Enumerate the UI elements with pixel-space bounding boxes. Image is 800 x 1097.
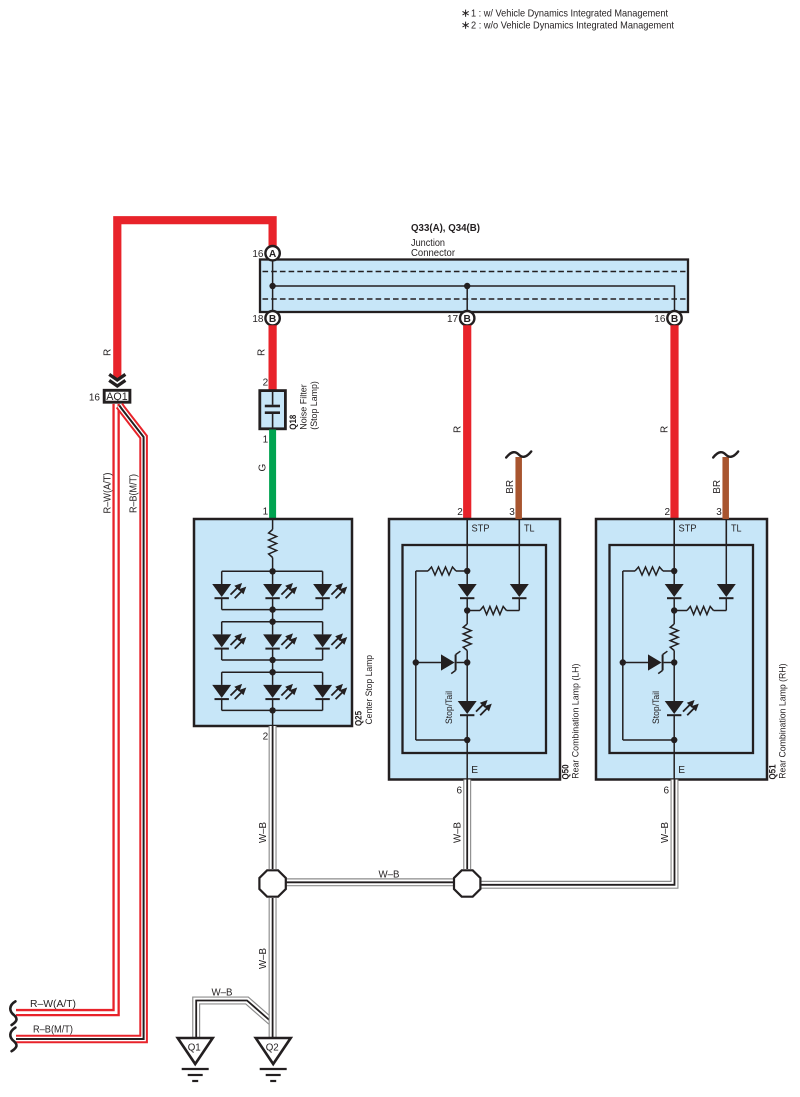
junction connector dashed bus upper xyxy=(263,271,686,273)
zener diode (Q50 clamp) xyxy=(416,662,441,664)
svg-text:W–B: W–B xyxy=(379,869,400,880)
pin 16 A (junction connector top) xyxy=(265,246,279,260)
wire G from noise filter to Q25 xyxy=(269,430,276,520)
splice junction J2 (octagon) xyxy=(454,870,480,896)
wire-break tilde (Q50 BR) xyxy=(506,452,531,458)
Q51 left rail xyxy=(622,571,624,740)
wire row 2 to row 3 xyxy=(272,660,274,672)
wire R-B(M/T) red/black xyxy=(16,406,144,1040)
resistor (Q51 tail dim) xyxy=(725,598,727,610)
resistor (Q51 bias) xyxy=(623,570,635,572)
LED D8 (Q25 row 3) xyxy=(272,672,274,685)
junction node (Q50 zener) xyxy=(464,659,470,665)
svg-text:W–B: W–B xyxy=(453,822,464,843)
wire W-B junction J1 to junction J2 xyxy=(286,878,453,886)
ground point Q2 xyxy=(256,1038,291,1064)
wire BR (tail feed to Q51) xyxy=(722,457,729,519)
capacitor C plates (Q18) xyxy=(265,405,280,408)
LED row 2 bottom bus xyxy=(222,659,323,661)
svg-text:W–B: W–B xyxy=(258,822,269,843)
svg-text:16: 16 xyxy=(252,249,264,260)
svg-text:(Stop Lamp): (Stop Lamp) xyxy=(309,381,319,430)
svg-text:AQ1: AQ1 xyxy=(106,391,127,403)
junction nodes row 1 xyxy=(269,568,275,574)
svg-text:2: 2 xyxy=(263,378,269,389)
Q51 TL pin wire xyxy=(725,519,727,545)
splice junction J1 (octagon) xyxy=(259,870,285,896)
svg-text:2: 2 xyxy=(665,507,671,518)
svg-text:W–B: W–B xyxy=(660,822,671,843)
Q50 left rail bottom return xyxy=(416,739,467,741)
diode (Q50 STP) xyxy=(466,571,468,584)
Q50 STP wire into module xyxy=(466,545,468,571)
wire W-B branch to ground Q1 xyxy=(196,1001,271,1038)
svg-text:BR: BR xyxy=(712,480,723,494)
LED D6 (Q25 row 2) xyxy=(322,622,324,635)
LED D1 (Q25 row 1) xyxy=(221,571,223,584)
junction node (Q50 left rail) xyxy=(413,659,419,665)
diode (Q51 TL) xyxy=(725,545,727,584)
svg-text:Stop/Tail: Stop/Tail xyxy=(444,691,454,724)
rear combination lamp Q50 box xyxy=(389,519,560,780)
resistor (Q50 tail dim) xyxy=(518,598,520,610)
wire row 1 to row 2 xyxy=(272,610,274,622)
Q50 TL pin wire xyxy=(518,519,520,545)
junction connector internal wire A16 to B18 xyxy=(272,260,274,311)
svg-text:16: 16 xyxy=(89,393,101,404)
svg-text:Q1: Q1 xyxy=(188,1043,201,1054)
svg-text:B: B xyxy=(464,314,471,325)
Q51 left rail bottom return xyxy=(623,739,674,741)
svg-text:B: B xyxy=(671,314,678,325)
wire R-W(A/T) red/white xyxy=(16,404,116,1013)
svg-text:Rear Combination Lamp (LH): Rear Combination Lamp (LH) xyxy=(571,664,581,779)
svg-text:6: 6 xyxy=(663,786,669,797)
connector arrow (double chevron) into AQ1 xyxy=(109,374,125,380)
LED D9 (Q25 row 3) xyxy=(322,672,324,685)
svg-text:W–B: W–B xyxy=(212,988,233,999)
junction node (Q51 mix) xyxy=(671,607,677,613)
junction connector internal bus wire to B17 and B16 xyxy=(273,286,675,311)
svg-text:2: 2 xyxy=(457,507,463,518)
svg-text:Rear Combination Lamp (RH): Rear Combination Lamp (RH) xyxy=(778,664,788,779)
wire-break squiggle (R-B end) xyxy=(10,1028,16,1052)
noise filter Q18 box xyxy=(260,391,286,429)
wire W-B from Q51 down and left to junction J2 xyxy=(481,780,675,885)
wire resistor to LED bank xyxy=(272,558,274,572)
LED D7 (Q25 row 3) xyxy=(221,672,223,685)
svg-text:Center Stop Lamp: Center Stop Lamp xyxy=(364,655,374,725)
Q51 STP pin wire xyxy=(673,519,675,545)
svg-text:18: 18 xyxy=(252,314,264,325)
svg-text:Stop/Tail: Stop/Tail xyxy=(651,691,661,724)
Q51 E pin wire xyxy=(673,740,675,780)
svg-text:W–B: W–B xyxy=(258,948,269,969)
diode (Q50 TL) xyxy=(518,545,520,584)
junction node (Q51 cathode) xyxy=(671,737,677,743)
wire R from B16 to Q51 STP xyxy=(670,325,678,519)
wire LED bank to Q25 pin 2 xyxy=(272,710,274,726)
junction node at A16 bus xyxy=(269,283,275,289)
svg-text:Noise Filter: Noise Filter xyxy=(299,384,309,430)
svg-text:BR: BR xyxy=(505,480,516,494)
svg-text:TL: TL xyxy=(524,524,535,535)
connector AQ1 box xyxy=(104,390,130,402)
svg-text:1: 1 xyxy=(263,435,269,446)
Q51 inner module box xyxy=(610,545,754,753)
note *1 w/ VDIM xyxy=(465,10,467,17)
resistor (Q50 bias) xyxy=(416,570,428,572)
LED D5 (Q25 row 2) xyxy=(272,622,274,635)
zener diode (Q51 clamp) xyxy=(623,662,648,664)
junction nodes row 3 xyxy=(269,669,275,675)
Q51 STP wire into module xyxy=(673,545,675,571)
junction node (Q50 cathode) xyxy=(464,737,470,743)
svg-text:B: B xyxy=(269,314,276,325)
svg-text:E: E xyxy=(471,765,478,776)
junction nodes row 2 xyxy=(269,619,275,625)
LED row 2 top bus xyxy=(222,621,323,623)
svg-text:STP: STP xyxy=(679,524,697,535)
wire R from B17 to Q50 STP xyxy=(463,325,471,519)
capacitor lead top (Q18) xyxy=(272,391,274,405)
svg-text:R: R xyxy=(257,349,268,356)
LED row 1 top bus xyxy=(222,570,323,572)
svg-text:Connector: Connector xyxy=(411,248,456,259)
svg-text:R: R xyxy=(103,349,114,356)
wire R feed from stop lamp switch (thick red) xyxy=(117,220,272,379)
junction connector internal drop to B17 xyxy=(466,286,468,311)
ground point Q1 xyxy=(178,1038,213,1064)
junction node (Q51 left rail) xyxy=(620,659,626,665)
junction node at B17 bus xyxy=(464,283,470,289)
center stop lamp Q25 box xyxy=(194,519,352,726)
wire-break squiggle (R-W end) xyxy=(10,1001,16,1025)
capacitor lead bottom (Q18) xyxy=(272,414,274,429)
svg-text:R–W(A/T): R–W(A/T) xyxy=(30,999,76,1010)
svg-text:Q2: Q2 xyxy=(266,1043,279,1054)
svg-text:E: E xyxy=(678,765,685,776)
wire W-B from Q50 to junction J2 xyxy=(463,780,471,870)
Q50 E pin wire xyxy=(466,740,468,780)
junction node (Q50 mix) xyxy=(464,607,470,613)
junction connector dashed bus lower xyxy=(263,298,686,300)
LED D3 (Q25 row 1) xyxy=(322,571,324,584)
svg-text:2: 2 xyxy=(263,732,269,743)
wire R from B18 to noise filter Q18 xyxy=(269,325,277,390)
LED D2 (Q25 row 1) xyxy=(272,571,274,584)
rear combination lamp Q51 box xyxy=(596,519,767,780)
svg-text:R: R xyxy=(660,426,671,433)
svg-text:A: A xyxy=(269,249,277,260)
svg-text:STP: STP xyxy=(472,524,490,535)
diode (Q51 STP) xyxy=(673,571,675,584)
Q50 left rail xyxy=(415,571,417,740)
svg-text:Junction: Junction xyxy=(411,238,445,249)
svg-text:Q33(A), Q34(B): Q33(A), Q34(B) xyxy=(411,223,480,234)
resistor (Q25 series) xyxy=(269,530,277,558)
junction node (Q51 zener) xyxy=(671,659,677,665)
svg-text:2 : w/o Vehicle Dynamics Integ: 2 : w/o Vehicle Dynamics Integrated Mana… xyxy=(471,21,674,32)
svg-text:1 : w/ Vehicle Dynamics Integr: 1 : w/ Vehicle Dynamics Integrated Manag… xyxy=(471,9,668,20)
Q50 STP pin wire xyxy=(466,519,468,545)
LED row 3 bottom bus xyxy=(222,709,323,711)
LED (Q51 stop/tail) xyxy=(673,663,675,702)
pin 17 B xyxy=(460,311,474,325)
resistor (Q51 series) xyxy=(673,611,675,625)
LED (Q50 stop/tail) xyxy=(466,663,468,702)
svg-text:R–B(M/T): R–B(M/T) xyxy=(33,1025,73,1036)
wire-break tilde (Q51 BR) xyxy=(713,452,738,458)
junction node (Q50 STP/resistor) xyxy=(464,568,470,574)
note *2 w/o VDIM xyxy=(465,22,467,29)
svg-text:R–W(A/T): R–W(A/T) xyxy=(103,473,114,514)
LED row 3 top bus xyxy=(222,671,323,673)
svg-text:17: 17 xyxy=(447,314,459,325)
wire W-B from junction J1 down to ground Q2 xyxy=(269,898,277,1037)
Q50 inner module box xyxy=(403,545,547,753)
junction node (Q51 STP/resistor) xyxy=(671,568,677,574)
LED D4 (Q25 row 2) xyxy=(221,622,223,635)
LED row 1 bottom bus xyxy=(222,609,323,611)
svg-text:3: 3 xyxy=(716,507,722,518)
svg-text:6: 6 xyxy=(456,786,462,797)
resistor (Q50 series) xyxy=(466,611,468,625)
Q25 input lead xyxy=(272,519,274,530)
svg-text:Q18: Q18 xyxy=(288,415,299,430)
pin 16 B xyxy=(667,311,681,325)
svg-text:16: 16 xyxy=(654,314,666,325)
svg-text:TL: TL xyxy=(731,524,742,535)
svg-text:1: 1 xyxy=(263,507,269,518)
svg-text:R: R xyxy=(452,426,463,433)
junction connector Q33(A) Q34(B) box xyxy=(260,260,688,313)
svg-text:G: G xyxy=(258,464,269,472)
wire BR (tail feed to Q50) xyxy=(515,457,522,519)
pin 18 B xyxy=(265,311,279,325)
svg-text:3: 3 xyxy=(509,507,515,518)
svg-text:R–B(M/T): R–B(M/T) xyxy=(128,474,139,513)
wire W-B from Q25 to junction J1 xyxy=(269,726,277,869)
